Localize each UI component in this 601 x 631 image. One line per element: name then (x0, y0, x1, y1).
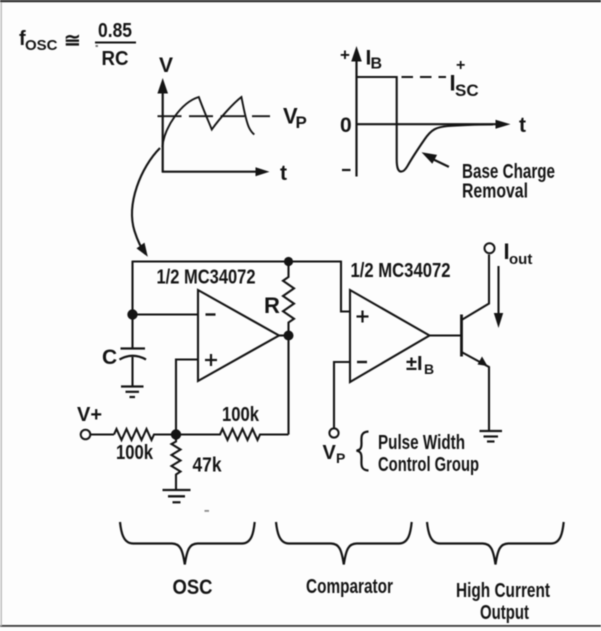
brace under Comparator section (276, 522, 412, 565)
svg-text:V: V (159, 54, 173, 77)
svg-text:R: R (264, 293, 280, 318)
op-amp U2 minus input sign (357, 361, 367, 363)
wire: top rail down to U2 non-inverting input (341, 261, 350, 312)
transistor Q1 collector (462, 255, 490, 321)
wire: U1 non-inverting input down to divider node (176, 360, 198, 435)
svg-text:B: B (371, 56, 383, 73)
IB graph: minus label (342, 169, 351, 171)
V+ terminal circle (81, 430, 91, 440)
wire: U2 output to transistor base (430, 334, 462, 336)
scan frame bottom edge (0, 625, 601, 627)
svg-text:t: t (280, 162, 287, 185)
svg-text:0.85: 0.85 (98, 20, 132, 42)
svg-text:Control Group: Control Group (378, 454, 479, 476)
capacitor C top plate (121, 347, 146, 349)
transistor Q1 emitter with arrow (462, 352, 490, 430)
IB graph: IB axis label (366, 47, 383, 73)
op-amp U1 minus input sign (206, 313, 216, 315)
scan speck above OSC brace (205, 510, 210, 512)
IB graph: current step curve with negative dip (357, 77, 494, 172)
svg-text:P: P (336, 450, 345, 466)
svg-text:SC: SC (455, 81, 479, 100)
node: inverting input junction dot (127, 309, 137, 319)
wire: inverting input of U1 (133, 313, 199, 315)
resistor 100k (right, feedback) zigzag (176, 429, 289, 440)
Iout terminal circle (485, 243, 495, 253)
svg-text:B: B (424, 361, 434, 377)
wire: U1 output (279, 334, 289, 336)
ground symbol under emitter (480, 431, 503, 442)
svg-text:100k: 100k (222, 404, 260, 426)
op-amp U2 triangle (350, 290, 430, 382)
V-t graph: VP label (283, 104, 307, 133)
svg-text:V+: V+ (77, 404, 102, 426)
svg-text:t: t (519, 114, 526, 137)
svg-text:Removal: Removal (462, 181, 528, 203)
V-t graph: V axis (157, 78, 168, 173)
svg-text:1/2 MC34072: 1/2 MC34072 (351, 260, 451, 282)
svg-text:Pulse Width: Pulse Width (378, 432, 465, 454)
svg-text:+: + (456, 57, 465, 74)
IB graph: Base Charge Removal label (462, 161, 555, 203)
scan speck near formula fraction (96, 45, 99, 47)
svg-text:47k: 47k (193, 455, 223, 477)
node: top rail / R junction dot (284, 257, 293, 266)
svg-text:OSC: OSC (173, 576, 213, 599)
svg-text:High Current: High Current (456, 580, 550, 602)
svg-text:out: out (509, 251, 532, 268)
svg-text:0: 0 (340, 114, 352, 137)
IB graph: vertical axis (351, 46, 362, 177)
resistor 47k vertical zigzag (172, 435, 181, 490)
svg-text:+: + (340, 46, 350, 65)
scan frame top edge (0, 0, 601, 2)
svg-text:OSC: OSC (25, 37, 58, 54)
Iout current direction arrow (494, 266, 503, 328)
resistor R vertical zigzag (283, 262, 294, 336)
node: U1 output junction dot (284, 331, 294, 341)
High Current Output label (456, 580, 550, 624)
svg-text:P: P (296, 113, 307, 132)
VP label (323, 442, 346, 466)
op-amp U2 plus input sign (357, 311, 369, 323)
svg-text:C: C (102, 346, 117, 369)
svg-text:±I: ±I (406, 353, 423, 375)
ground symbol under C (121, 387, 144, 398)
V-t graph: VP dashed level line (158, 115, 271, 117)
svg-text:≅: ≅ (64, 30, 81, 52)
ground symbol under 47k (163, 490, 191, 502)
curly brace before Pulse Width group (357, 432, 369, 471)
transistor Q1 base bar (460, 315, 463, 357)
wire: C to ground (131, 357, 133, 387)
svg-text:Output: Output (480, 602, 529, 624)
label formula fOSC = 0.85/RC (19, 20, 136, 70)
op-amp U1 triangle (198, 290, 279, 381)
wire: left vertical rail (top to C) (131, 261, 133, 348)
V-t graph: t axis (162, 167, 270, 176)
svg-text:100k: 100k (116, 442, 154, 464)
Pulse Width Control Group label (378, 432, 479, 476)
brace under OSC section (120, 522, 255, 565)
capacitor C bottom curved plate (120, 356, 147, 360)
IB graph: base charge removal pointer arrow (422, 152, 449, 167)
Iout label (504, 239, 533, 268)
IB graph: ISC dashed level (402, 76, 447, 78)
svg-text:V: V (323, 442, 337, 464)
wire: U2 inverting input to VP terminal (334, 362, 350, 428)
op-amp U1 plus input sign (205, 354, 217, 366)
V-t graph: sawtooth waveform (162, 97, 254, 147)
wire: circuit top rail (133, 260, 342, 262)
plus-minus IB label at U2 output (406, 353, 434, 377)
VP terminal circle (329, 428, 338, 437)
node: divider junction dot (171, 429, 181, 439)
IB graph: horizontal axis (356, 120, 511, 129)
svg-text:Comparator: Comparator (306, 576, 393, 598)
scan frame left edge (1, 2, 2, 626)
IB graph: ISC label (450, 71, 479, 101)
svg-text:1/2 MC34072: 1/2 MC34072 (157, 267, 256, 289)
resistor 100k (left) zigzag (114, 429, 176, 440)
wire: output node down to feedback resistor (287, 336, 289, 435)
curved arrow from graph to circuit top wire (132, 148, 160, 257)
svg-text:RC: RC (102, 48, 129, 70)
brace under High Current Output section (427, 522, 564, 565)
wire: V+ to 100k (91, 433, 114, 435)
